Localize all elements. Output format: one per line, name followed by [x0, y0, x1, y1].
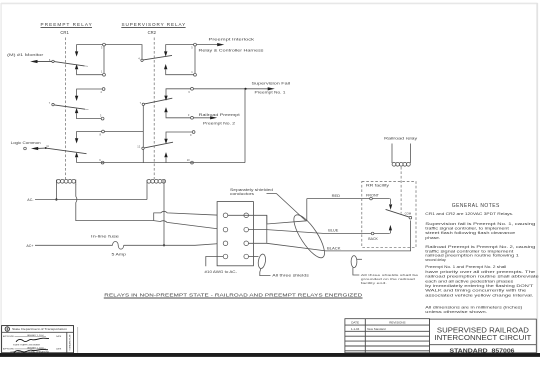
- svg-text:CR1 and CR2 are 120VAC 3PDT Re: CR1 and CR2 are 120VAC 3PDT Relays.: [425, 212, 513, 216]
- svg-text:DATE: DATE: [56, 335, 62, 338]
- svg-text:Railroad Preempt: Railroad Preempt: [199, 113, 240, 117]
- terminal block TB1: [217, 202, 253, 266]
- wire terminal 2 to BLUE conductor: [249, 230, 390, 234]
- relay coil CR1: [56, 179, 75, 185]
- wire CR1 set1 to CR2 set1 common: [105, 45, 142, 59]
- svg-text:Railroad relay: Railroad relay: [384, 137, 418, 141]
- svg-text:have priority over all other p: have priority over all other preempts. T…: [425, 270, 535, 274]
- wire terminal 3 to BLACK conductor: [249, 221, 411, 251]
- svg-text:Logic Common: Logic Common: [11, 141, 41, 145]
- RR relay front contact: [366, 193, 392, 210]
- CR2 pole 2 movable arm (terminal 7): [140, 98, 173, 105]
- railroad relay coil: [384, 137, 418, 167]
- railroad relay actuation dashed line: [400, 167, 402, 214]
- svg-text:STANDARD PLAN: STANDARD PLAN: [69, 334, 72, 350]
- shield at railroad end: [351, 256, 419, 285]
- svg-text:associated vehicle yellow chan: associated vehicle yellow change interva…: [425, 293, 533, 297]
- relay CR1 contact set 3 (poles 8/9): [75, 130, 143, 164]
- svg-text:street flash following flash c: street flash following flash clearance: [425, 231, 515, 235]
- CR2 pole 3 movable arm (terminal 12): [137, 142, 173, 149]
- svg-text:AC-: AC-: [27, 198, 34, 202]
- svg-text:STATE TRAFFIC ENGINEER: STATE TRAFFIC ENGINEER: [13, 343, 41, 346]
- svg-text:All three shields: All three shields: [272, 274, 309, 278]
- svg-text:Preempt No. 2: Preempt No. 2: [203, 122, 235, 126]
- svg-text:second delay.: second delay.: [425, 258, 446, 262]
- RR relay common heel: [386, 209, 412, 219]
- svg-text:facility end.: facility end.: [361, 281, 388, 285]
- wire CR2 set2 common feeder (vertical from CR1 set3 top): [142, 106, 144, 163]
- revisions table: [345, 319, 430, 353]
- svg-text:AC+: AC+: [26, 244, 33, 248]
- svg-text:State Department of Transporta: State Department of Transportation: [12, 328, 68, 331]
- relay coil CR2: [147, 179, 166, 199]
- wire common bus under contact sets: [77, 162, 245, 164]
- RR relay back contact: [368, 225, 392, 241]
- svg-text:traffic signal controller, to: traffic signal controller, to implement: [425, 227, 509, 231]
- svg-text:5 Amp: 5 Amp: [112, 253, 127, 257]
- wire CR1 coil left lead to AC- bus: [55, 185, 57, 200]
- svg-text:Supervision fail is Preempt No: Supervision fail is Preempt No. 1, causi…: [425, 222, 535, 226]
- wire CR1 coil right lead (hops AC- bus): [76, 185, 154, 221]
- svg-text:New Standard: New Standard: [367, 327, 386, 331]
- svg-text:SUPERVISORY RELAY: SUPERVISORY RELAY: [122, 22, 186, 27]
- svg-text:1-1-04: 1-1-04: [351, 327, 360, 331]
- svg-text:RED: RED: [332, 194, 341, 198]
- svg-text:PREEMPT RELAY: PREEMPT RELAY: [41, 22, 93, 27]
- svg-text:JANUARY 1, 2004: JANUARY 1, 2004: [27, 334, 44, 337]
- svg-text:REVISIONS: REVISIONS: [389, 321, 405, 325]
- svg-text:DATE: DATE: [56, 347, 62, 350]
- general notes: [425, 203, 539, 314]
- CR1 pole 3 movable arm (terminal 11): [45, 144, 87, 154]
- svg-text:(M) #1 Monitor: (M) #1 Monitor: [7, 53, 45, 57]
- svg-text:FRONT: FRONT: [366, 193, 379, 197]
- wire CR2 coil right lead down to AC+: [163, 185, 165, 246]
- preempt relay header CR1: [41, 22, 93, 35]
- RR facility boundary dashed box: [362, 182, 416, 248]
- wire to terminal 2 (hops coil lead): [154, 221, 223, 230]
- svg-text:each and all active pedestrian: each and all active pedestrian phases: [425, 279, 514, 283]
- svg-text:grounded on the railroad: grounded on the railroad: [361, 277, 416, 281]
- node: logic common arrow: [11, 141, 46, 150]
- AC- feeder label and bus: [27, 198, 147, 202]
- svg-text:Preempt No. 1 and Preempt No.: Preempt No. 1 and Preempt No. 2 shall: [425, 265, 506, 269]
- node: supervision fail output arrow: [193, 82, 290, 95]
- svg-text:COM: COM: [405, 212, 412, 216]
- wire to terminal 1 (hops coil lead): [154, 211, 223, 220]
- svg-text:BLACK: BLACK: [327, 246, 342, 250]
- svg-text:INTERCONNECT CIRCUIT: INTERCONNECT CIRCUIT: [434, 333, 532, 342]
- svg-text:All three shields shall be: All three shields shall be: [361, 273, 420, 277]
- svg-text:unless otherwise shown.: unless otherwise shown.: [425, 310, 487, 314]
- title block: [430, 319, 537, 354]
- terminal: BLUE wire circle: [371, 232, 374, 235]
- svg-text:#10 AWG to AC-: #10 AWG to AC-: [205, 270, 238, 274]
- wire AC+ to terminal 3: [164, 243, 222, 245]
- wire terminal 1 to RED conductor: [228, 215, 307, 224]
- terminal: RED wire circle: [370, 197, 373, 200]
- svg-text:Preempt Interlock: Preempt Interlock: [209, 38, 255, 42]
- svg-text:CHIEF, OFFICE OF SIGNAL OPERAT: CHIEF, OFFICE OF SIGNAL OPERATIONS: [10, 351, 50, 354]
- svg-text:All dimensions are in millimet: All dimensions are in millimeters (inche…: [425, 305, 522, 309]
- node: preempt interlock arrow: [196, 38, 264, 53]
- wire supervision-fail junction to bus: [244, 89, 246, 163]
- CR2 pole 1 movable arm (terminal 4): [138, 55, 172, 61]
- node: railroad preempt output arrow: [193, 113, 239, 126]
- svg-text:RR facility: RR facility: [366, 184, 390, 188]
- svg-text:WALK and timing concurrently w: WALK and timing concurrently with the: [425, 289, 526, 293]
- svg-text:by immediately entering the fl: by immediately entering the flashing DON…: [425, 284, 533, 288]
- state caption: [104, 293, 363, 299]
- relay CR2 contact set 2 (poles 6/3): [164, 87, 193, 119]
- svg-text:RELAYS IN NON-PREEMPT STATE -: RELAYS IN NON-PREEMPT STATE - RAILROAD A…: [104, 293, 362, 298]
- svg-text:GENERAL NOTES: GENERAL NOTES: [452, 203, 500, 209]
- svg-text:BLUE: BLUE: [328, 229, 339, 233]
- relay CR1 contact set 2 (poles 4/3): [75, 88, 105, 120]
- CR1 pole 1 movable arm (terminal 6): [49, 58, 88, 67]
- svg-text:DATE: DATE: [351, 321, 359, 325]
- svg-text:STANDARD 857006: STANDARD 857006: [450, 348, 515, 354]
- relay CR2 actuation dashed line: [153, 38, 155, 180]
- fuse F1 in-line 5 Amp: [35, 234, 164, 256]
- CR1 pole 2 movable arm (terminal 7): [49, 101, 89, 110]
- svg-text:Preempt No. 1: Preempt No. 1: [255, 91, 286, 95]
- svg-text:CR1: CR1: [60, 30, 69, 35]
- wire terminal 4 to AC- ground stub: [205, 257, 238, 275]
- shield drain at terminal 4: [249, 254, 310, 278]
- svg-text:Supervision Fail: Supervision Fail: [252, 82, 291, 86]
- interconnect cable bundle ellipse: [289, 211, 330, 262]
- node junction CR1 coil / AC-: [55, 198, 57, 200]
- approval signature block: [2, 326, 78, 354]
- relay CR2 contact set 3 (poles 9/10): [164, 131, 195, 164]
- node junction CR2 coil / AC+: [163, 244, 165, 246]
- svg-text:railroad preemption routine sh: railroad preemption routine shall abbrev…: [425, 275, 539, 279]
- supervisory relay header CR2: [121, 22, 185, 35]
- label: separately shielded conductors: [230, 188, 306, 221]
- node: monitor output arrow: [7, 53, 52, 63]
- svg-text:CR2: CR2: [148, 30, 157, 35]
- svg-text:Relay & Controller Harness: Relay & Controller Harness: [199, 48, 265, 52]
- relay CR2 contact set 1 (poles 5/1): [164, 43, 196, 76]
- svg-text:BACK: BACK: [368, 237, 378, 241]
- svg-text:In-line fuse: In-line fuse: [91, 234, 119, 238]
- svg-text:APPROVED: APPROVED: [3, 335, 15, 338]
- svg-text:phase.: phase.: [425, 236, 440, 240]
- svg-text:conductors: conductors: [230, 192, 255, 196]
- relay CR1 actuation dashed line: [65, 38, 67, 180]
- svg-text:APPROVED: APPROVED: [3, 347, 15, 350]
- relay CR1 contact set 1 (poles 5/1): [75, 43, 106, 76]
